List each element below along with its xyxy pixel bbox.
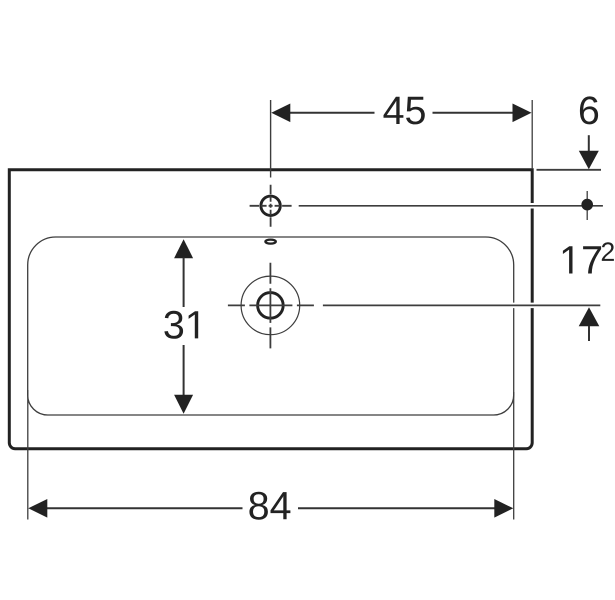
drain vertical centerline xyxy=(269,263,271,349)
faucet hole horizontal centerline xyxy=(250,205,292,207)
6 dim: arrow tail xyxy=(588,135,590,152)
line from drain to right reference (white casing) xyxy=(323,303,600,309)
line from drain to right reference xyxy=(323,304,600,306)
84 dim: value label xyxy=(249,492,290,520)
84 dim: right extension line xyxy=(513,392,515,520)
17 dim: arrow tail xyxy=(588,326,590,341)
45 dim: line right segment xyxy=(433,112,514,114)
84 dim: left arrowhead xyxy=(28,499,47,518)
45 dim: left arrowhead xyxy=(271,104,290,123)
84 dim: right arrowhead xyxy=(494,499,513,518)
84 dim: line right segment xyxy=(298,507,495,509)
6 dim: value label xyxy=(580,96,598,124)
drain outer circle xyxy=(241,276,300,335)
17 dim: up arrowhead at drain line xyxy=(579,307,600,326)
45 dim: right arrowhead xyxy=(513,104,532,123)
wall distance marker centerline xyxy=(586,191,588,220)
84 dim: line left segment xyxy=(47,507,243,509)
45 dim: right extension line xyxy=(531,100,533,169)
outer basin rim outline xyxy=(9,170,532,449)
17 dim: value label xyxy=(563,246,601,273)
31 dim: down arrowhead xyxy=(174,395,193,414)
31 dim: line lower segment xyxy=(183,345,185,396)
faucet hole vertical centerline xyxy=(270,185,272,227)
45 dim: value label xyxy=(384,97,425,125)
6 dim: tick line at rim top level xyxy=(537,169,602,171)
45 dim: line left segment xyxy=(290,112,375,114)
line from faucet hole to wall-distance dot (white casing) xyxy=(299,203,603,209)
31 dim: up arrowhead xyxy=(174,239,193,258)
overflow slot xyxy=(265,240,275,244)
faucet hole xyxy=(261,196,280,215)
drain horizontal centerline xyxy=(228,304,314,306)
84 dim: left extension line xyxy=(27,390,29,520)
inner bowl outline xyxy=(28,237,514,415)
17 dim: superscript footnote 2 xyxy=(602,242,614,261)
drain hole xyxy=(258,293,284,319)
wall distance marker dot xyxy=(581,199,593,211)
31 dim: value label xyxy=(164,311,198,339)
6 dim: down arrowhead xyxy=(579,151,599,170)
line from faucet hole to wall-distance dot xyxy=(299,205,603,207)
31 dim: line upper segment xyxy=(183,258,185,308)
45 dim: left extension line (faucet centre) xyxy=(270,100,272,178)
